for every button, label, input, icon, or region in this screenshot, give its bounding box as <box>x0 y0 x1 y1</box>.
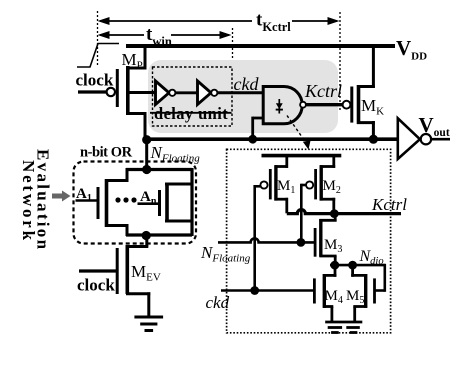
svg-text:Kctrl: Kctrl <box>371 195 407 214</box>
OR network bottom rail <box>126 233 192 236</box>
ckd wire I2 to NAND <box>217 91 263 94</box>
timing dotted guide line left <box>97 11 99 66</box>
delay unit dotted box <box>153 67 233 126</box>
vertical wire dot to OR network <box>145 140 148 170</box>
keeper control dashed box <box>227 149 391 332</box>
svg-text:VDD: VDD <box>396 36 427 63</box>
VDD rail <box>126 44 395 48</box>
svg-text:n-bit OR: n-bit OR <box>80 145 133 161</box>
M2 gate wire to N_Floating <box>301 184 306 243</box>
clock rising edge sketch <box>77 44 119 68</box>
inverter I2 <box>198 81 218 105</box>
svg-text:An: An <box>140 189 157 207</box>
M1 gate wire to ckd <box>255 185 261 291</box>
svg-text:MK: MK <box>361 96 384 118</box>
svg-text:Vout: Vout <box>419 113 450 139</box>
svg-text:M2: M2 <box>323 178 341 196</box>
NAND U1 <box>263 87 306 124</box>
svg-text:clock: clock <box>77 276 115 295</box>
junction dot on OR top rail <box>142 165 151 174</box>
svg-text:clock: clock <box>76 71 114 90</box>
N_Floating wire into box (hop over M1 gate wire) <box>218 238 315 242</box>
shaded region behind delay unit and NAND <box>148 60 338 133</box>
svg-text:ckd: ckd <box>234 74 260 94</box>
N_dio wire <box>330 264 385 267</box>
svg-text:A1: A1 <box>76 186 92 204</box>
Kctrl wire NAND to M_K <box>306 103 343 106</box>
svg-text:MP: MP <box>122 50 143 72</box>
n-bit OR dashed box <box>74 162 197 244</box>
dynamic node output line <box>147 137 399 141</box>
ground below M_EV <box>134 317 163 331</box>
svg-text:M1: M1 <box>277 178 295 196</box>
timing dotted guide line middle <box>232 28 234 66</box>
svg-text:Ndio: Ndio <box>359 248 384 267</box>
junction dot M2 gate / N_Floating <box>297 238 306 247</box>
t_win dimension arrow <box>98 31 232 39</box>
junction dot at M_K drain <box>369 135 378 144</box>
transistor M1 <box>260 154 288 213</box>
transistor M2 <box>306 154 335 213</box>
svg-text:tKctrl: tKctrl <box>256 10 291 35</box>
svg-text:Network: Network <box>19 160 38 243</box>
Kctrl line inside box with hop over M2 gate wire <box>287 210 401 214</box>
transistor M3 <box>315 214 337 266</box>
junction dot Kctrl / M2 drain <box>330 209 339 218</box>
junction dot on output line below NAND <box>248 135 257 144</box>
gray input arrow to evaluation network <box>52 191 71 202</box>
diode mark inside NAND <box>276 99 283 114</box>
ckd wire into box <box>221 289 314 292</box>
transistor M5 (diode connected, mirrored) <box>351 264 385 322</box>
node N_Floating junction dot <box>142 135 151 144</box>
dashed arrow NAND to keeper-control box <box>287 116 311 150</box>
junction dots on N_dio wire <box>330 261 339 270</box>
keeper box top rail <box>262 154 342 158</box>
wire I1 to I2 <box>175 91 197 94</box>
svg-text:M5: M5 <box>346 288 364 306</box>
ellipsis dots <box>115 197 136 202</box>
t_Kctrl dimension arrow <box>98 17 340 25</box>
ground below M4 M5 <box>325 322 362 333</box>
transistor M_K <box>352 44 375 140</box>
NAND bottom input wire from N_Floating <box>253 117 264 139</box>
OR network top rail <box>126 168 192 171</box>
V_out output wire <box>431 138 450 141</box>
svg-text:M3: M3 <box>324 237 342 255</box>
svg-text:MEV: MEV <box>131 262 161 284</box>
transistor A1 <box>76 168 129 236</box>
transistor M4 <box>314 264 336 322</box>
clock wire to M_P gate <box>78 90 107 93</box>
timing dotted guide line right <box>339 12 341 110</box>
M_K gate bubble <box>343 101 351 109</box>
svg-text:NFloating: NFloating <box>200 243 251 265</box>
junction dot M1 gate / ckd <box>250 286 259 295</box>
output inverter INV3 <box>398 118 431 159</box>
OR network right vertical <box>190 168 193 236</box>
transistor M_EV <box>79 236 150 318</box>
M_P gate bubble <box>107 88 115 96</box>
transistor An <box>138 183 193 222</box>
transistor M_P <box>117 44 156 140</box>
svg-text:Kctrl: Kctrl <box>304 81 342 101</box>
junction dot on OR bottom rail <box>142 231 151 240</box>
inverter I1 <box>156 81 176 105</box>
svg-text:M4: M4 <box>325 288 343 306</box>
